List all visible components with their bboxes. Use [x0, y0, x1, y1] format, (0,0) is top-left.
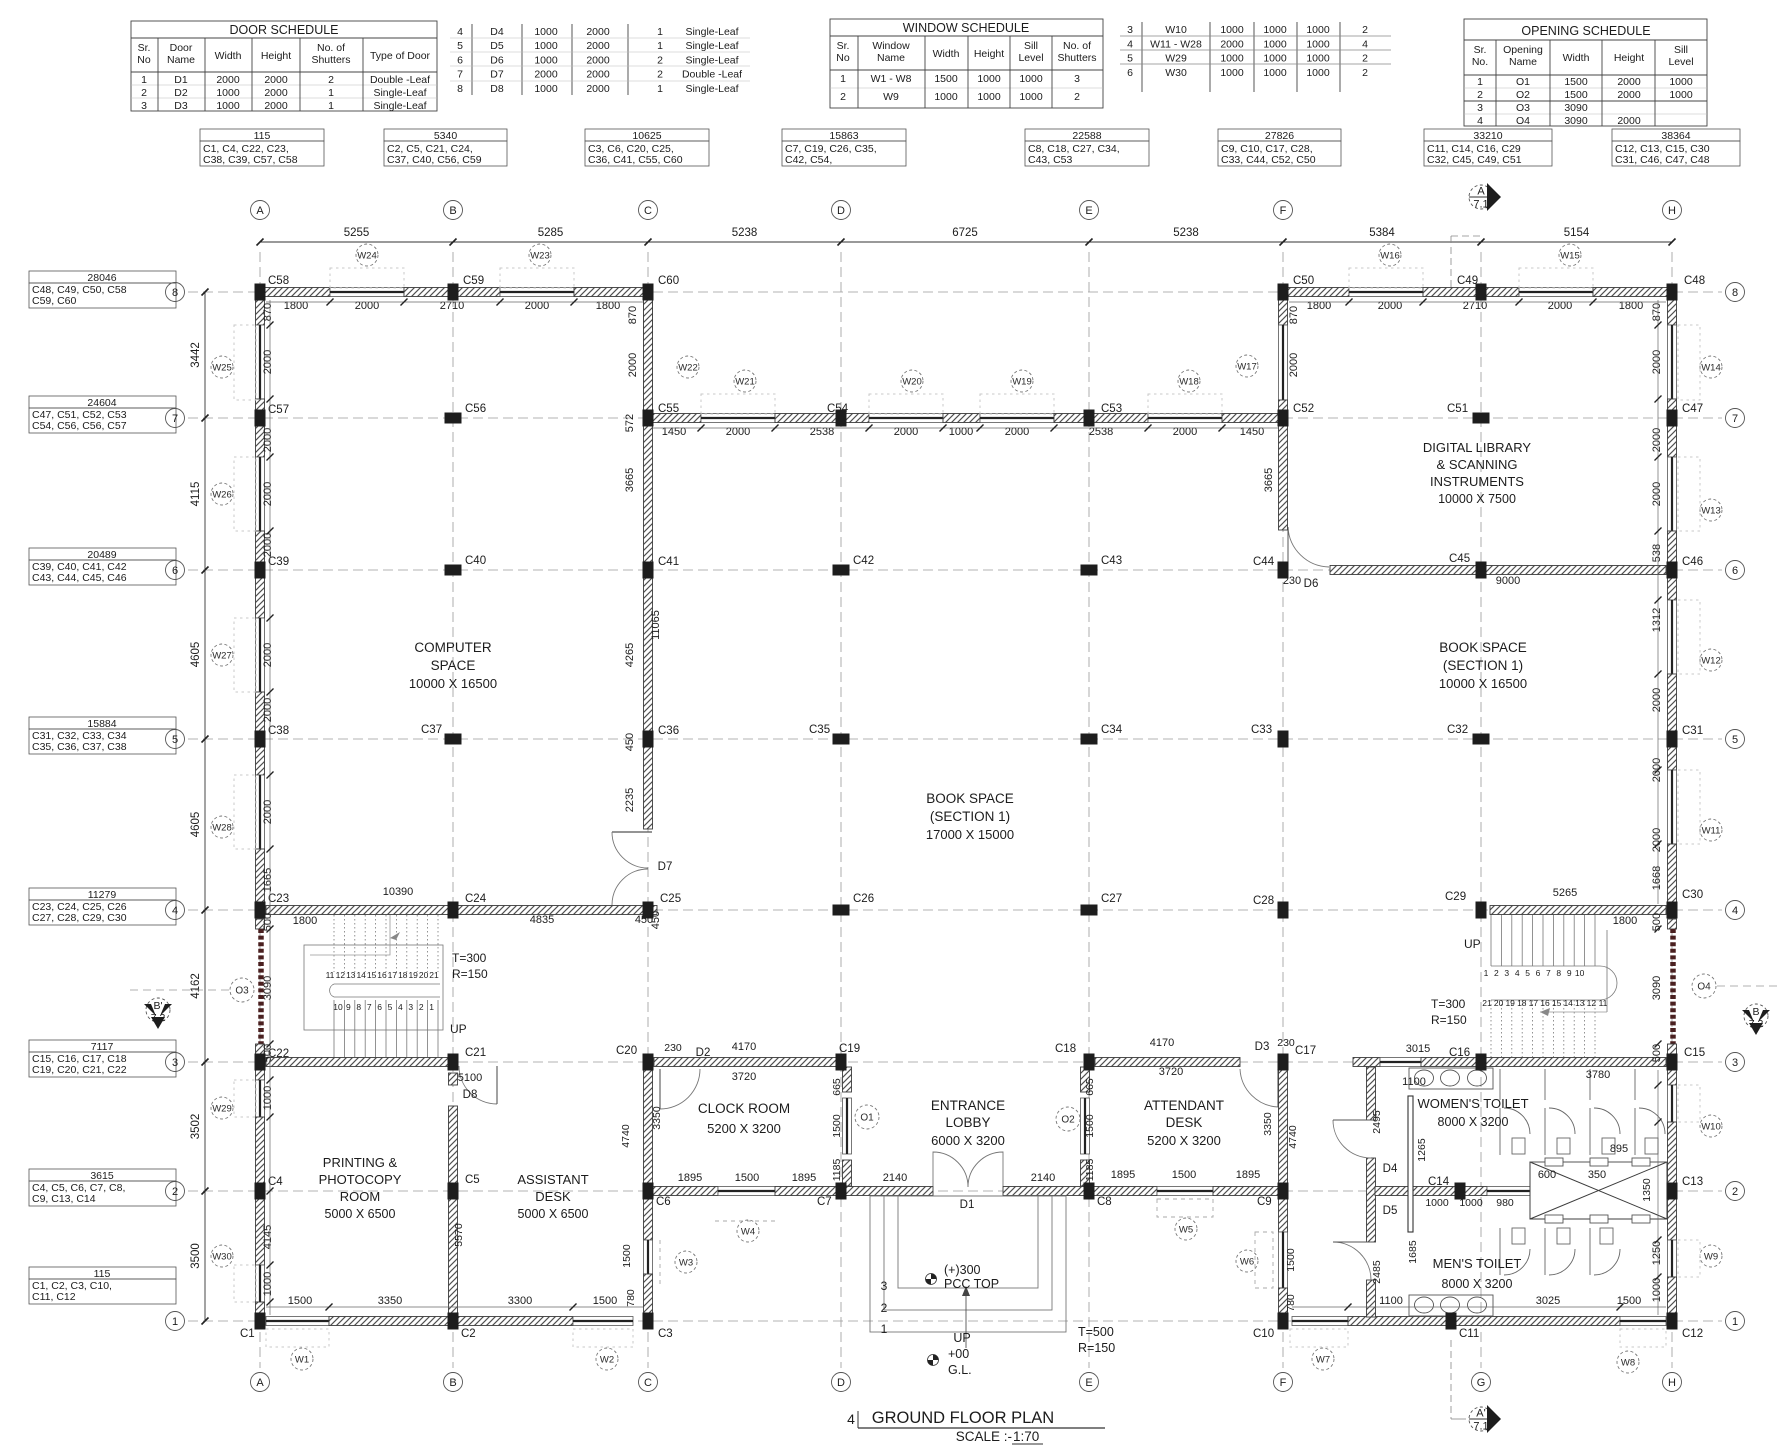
door D4 swing [1333, 1120, 1371, 1158]
wall col C rows3-2 [644, 1069, 653, 1185]
window W23 [500, 288, 574, 297]
svg-text:D5: D5 [1383, 1205, 1398, 1217]
svg-text:5: 5 [457, 40, 463, 52]
svg-text:3350: 3350 [378, 1295, 402, 1307]
svg-text:C46: C46 [1682, 556, 1703, 568]
svg-text:3090: 3090 [262, 976, 274, 1000]
wall row7 segment 1450 [648, 414, 701, 423]
svg-text:1000: 1000 [1669, 76, 1693, 88]
svg-text:W6: W6 [1240, 1257, 1254, 1268]
svg-text:Height: Height [261, 50, 291, 62]
svg-text:8000 X 3200: 8000 X 3200 [1442, 1277, 1513, 1291]
svg-text:4: 4 [847, 1411, 855, 1427]
svg-text:7: 7 [1732, 413, 1738, 425]
wall col H seg [1668, 1122, 1677, 1185]
svg-text:4170: 4170 [1150, 1037, 1174, 1049]
svg-text:W12: W12 [1701, 656, 1721, 667]
svg-text:6: 6 [1732, 565, 1738, 577]
wall col H seg [1668, 424, 1677, 457]
svg-text:870: 870 [627, 306, 639, 324]
svg-text:2: 2 [419, 1002, 424, 1012]
svg-text:1000: 1000 [1306, 38, 1330, 50]
svg-text:W10: W10 [1701, 1122, 1721, 1133]
svg-text:21: 21 [429, 970, 439, 980]
wall col B stub below C21 [449, 1073, 458, 1085]
svg-text:1: 1 [657, 83, 663, 95]
column C50 [1278, 284, 1289, 301]
wall col H seg [1668, 531, 1677, 565]
svg-text:3: 3 [881, 1279, 888, 1293]
svg-text:W29: W29 [212, 1104, 232, 1115]
svg-text:C52: C52 [1293, 403, 1314, 415]
window W19 [980, 414, 1054, 423]
svg-text:C19: C19 [839, 1043, 860, 1055]
svg-text:1000: 1000 [262, 1086, 274, 1110]
wall col C long [644, 298, 653, 829]
svg-text:15: 15 [367, 970, 377, 980]
window W8 [1620, 1317, 1666, 1326]
svg-text:C59: C59 [463, 275, 484, 287]
svg-text:C56: C56 [465, 403, 486, 415]
svg-text:O3: O3 [235, 986, 249, 997]
wall col A seg [256, 1197, 265, 1265]
svg-text:2: 2 [657, 69, 663, 81]
svg-text:A: A [256, 1377, 264, 1389]
column C15 [1667, 1054, 1678, 1071]
svg-text:Shutters: Shutters [311, 54, 350, 66]
svg-text:450: 450 [635, 914, 653, 926]
svg-text:2: 2 [1362, 53, 1368, 65]
women toilet stalls [1500, 1108, 1665, 1155]
svg-text:1500: 1500 [621, 1244, 633, 1268]
wall col A seg [256, 399, 265, 412]
svg-text:1500: 1500 [1084, 1114, 1096, 1138]
svg-text:18: 18 [1517, 998, 1527, 1008]
svg-text:C5: C5 [465, 1174, 480, 1186]
svg-text:1000: 1000 [1425, 1197, 1449, 1209]
svg-text:W5: W5 [1179, 1225, 1193, 1236]
svg-text:3015: 3015 [1406, 1043, 1430, 1055]
svg-text:3: 3 [1477, 102, 1483, 114]
svg-text:1: 1 [1484, 968, 1489, 978]
column C17 [1278, 1054, 1289, 1071]
window W21 [701, 414, 775, 423]
grid number circles left [166, 283, 185, 302]
column C52 [1278, 410, 1289, 427]
svg-text:Single-Leaf: Single-Leaf [373, 87, 426, 99]
wall col A seg below O3 [256, 1044, 265, 1054]
svg-text:2235: 2235 [624, 788, 636, 812]
column C7 [836, 1183, 847, 1200]
toilet left wall seg2 [1367, 1158, 1376, 1242]
svg-text:C55: C55 [658, 403, 679, 415]
svg-text:2000: 2000 [586, 54, 610, 66]
svg-text:3: 3 [1504, 968, 1509, 978]
toilet left wall seg1 [1367, 1067, 1376, 1120]
svg-text:C17: C17 [1295, 1045, 1316, 1057]
opening schedule table [1464, 19, 1707, 126]
window W27 glass [256, 618, 265, 692]
svg-text:C36: C36 [658, 725, 679, 737]
svg-text:D7: D7 [658, 861, 673, 873]
svg-text:20: 20 [1494, 998, 1504, 1008]
svg-text:H: H [1668, 1377, 1676, 1389]
svg-text:PHOTOCOPY: PHOTOCOPY [319, 1172, 402, 1187]
wall col H seg above O4 [1668, 919, 1677, 929]
tick slashes on vertical dim chains [267, 322, 1662, 1306]
svg-text:No. of: No. of [1063, 40, 1091, 52]
window W7 [1292, 1317, 1348, 1326]
svg-text:D1: D1 [960, 1199, 975, 1211]
svg-text:350: 350 [1588, 1169, 1606, 1181]
column C1 [255, 1313, 266, 1330]
svg-text:D2: D2 [174, 87, 188, 99]
svg-text:H: H [1668, 205, 1676, 217]
svg-text:9: 9 [346, 1002, 351, 1012]
svg-text:Double -Leaf: Double -Leaf [370, 74, 430, 86]
svg-text:4605: 4605 [190, 812, 202, 838]
svg-text:1000: 1000 [1263, 67, 1287, 79]
svg-text:8: 8 [1732, 287, 1738, 299]
svg-text:1000: 1000 [216, 87, 240, 99]
svg-text:3720: 3720 [732, 1071, 756, 1083]
column C22 [255, 1054, 266, 1071]
level marker PCC TOP [926, 1274, 937, 1285]
svg-text:Sr.: Sr. [837, 40, 850, 52]
svg-text:C42: C42 [853, 555, 874, 567]
svg-text:3300: 3300 [508, 1295, 532, 1307]
svg-text:500: 500 [1651, 913, 1663, 931]
svg-text:10: 10 [1575, 968, 1585, 978]
svg-text:5238: 5238 [732, 227, 758, 239]
svg-text:4605: 4605 [190, 642, 202, 668]
wall row2 clock bottom [652, 1187, 718, 1196]
svg-text:C53: C53 [1101, 403, 1122, 415]
svg-text:8: 8 [172, 287, 178, 299]
svg-text:W1 - W8: W1 - W8 [871, 73, 912, 85]
svg-text:780: 780 [1285, 1294, 1297, 1312]
svg-text:1100: 1100 [1402, 1076, 1426, 1088]
left dimension line 3442/4115/4605/4605/4162/3502/3500 [204, 292, 206, 1321]
wall row7 segment 2538 [1054, 414, 1148, 423]
svg-text:2485: 2485 [1371, 1260, 1383, 1284]
svg-text:C25: C25 [660, 893, 681, 905]
svg-text:O3: O3 [1516, 102, 1530, 114]
svg-text:2000: 2000 [534, 69, 558, 81]
svg-text:4: 4 [172, 905, 178, 917]
svg-text:C15: C15 [1684, 1047, 1705, 1059]
svg-text:1000: 1000 [977, 91, 1001, 103]
svg-text:W17: W17 [1237, 362, 1257, 373]
svg-text:ASSISTANT: ASSISTANT [517, 1172, 588, 1187]
svg-text:C7: C7 [817, 1196, 832, 1208]
opening O1 window [843, 1098, 852, 1154]
wall row6 [1330, 566, 1666, 575]
svg-text:C9, C13, C14: C9, C13, C14 [32, 1193, 96, 1205]
svg-text:C40: C40 [465, 555, 486, 567]
svg-text:W29: W29 [1165, 53, 1187, 65]
svg-text:4: 4 [1732, 905, 1738, 917]
svg-text:7.1: 7.1 [1473, 1421, 1488, 1433]
svg-text:A: A [1477, 186, 1485, 198]
column C8 [1084, 1183, 1095, 1200]
column C31 [1667, 731, 1678, 748]
svg-text:SPACE: SPACE [431, 658, 476, 673]
svg-text:C51: C51 [1447, 403, 1468, 415]
svg-text:Window: Window [872, 40, 910, 52]
opening O3 collapsible wall (red chain) [258, 929, 264, 1044]
svg-text:1: 1 [881, 1322, 888, 1336]
svg-text:2000: 2000 [1651, 758, 1663, 782]
column C21 [448, 1054, 459, 1071]
dotted leader boxes top wall windows [330, 268, 1593, 414]
svg-text:2000: 2000 [262, 428, 274, 452]
svg-text:2140: 2140 [1031, 1172, 1055, 1184]
column C14 [1455, 1183, 1466, 1200]
svg-text:2000: 2000 [262, 350, 274, 374]
svg-text:Name: Name [167, 54, 195, 66]
wall col A seg [256, 298, 265, 325]
section marker A/7.1 top [1469, 183, 1501, 211]
svg-text:3350: 3350 [651, 1106, 663, 1130]
wall col A seg [256, 692, 265, 734]
window W18 [1148, 414, 1222, 423]
wall col C rows2-1 lower [644, 1274, 653, 1316]
svg-text:1350: 1350 [1641, 1178, 1653, 1202]
svg-text:4740: 4740 [1287, 1125, 1299, 1149]
svg-text:1000: 1000 [977, 73, 1001, 85]
svg-text:1: 1 [429, 1002, 434, 1012]
svg-text:C37: C37 [421, 724, 442, 736]
column C28 [1278, 902, 1289, 919]
svg-text:780: 780 [625, 1289, 637, 1307]
svg-text:Level: Level [1018, 52, 1043, 64]
wall row2 toilets divider [1375, 1187, 1487, 1196]
svg-text:2: 2 [1362, 24, 1368, 36]
window W28 glass [256, 775, 265, 849]
window W4 glass [718, 1187, 775, 1196]
svg-text:2000: 2000 [586, 69, 610, 81]
svg-text:230: 230 [1277, 1037, 1295, 1049]
svg-text:Sill: Sill [1674, 44, 1688, 56]
svg-text:3: 3 [141, 100, 147, 112]
svg-text:1895: 1895 [792, 1172, 816, 1184]
svg-text:4: 4 [1477, 115, 1483, 127]
svg-text:5255: 5255 [344, 227, 370, 239]
window schedule table [830, 19, 1103, 108]
svg-text:3502: 3502 [190, 1114, 202, 1140]
column group label boxes (top) [200, 129, 324, 166]
door D5 swing [1333, 1242, 1371, 1280]
svg-text:F: F [1280, 1377, 1287, 1389]
svg-text:W13: W13 [1701, 506, 1721, 517]
window W29 glass [256, 1080, 265, 1117]
svg-text:D: D [837, 205, 845, 217]
svg-text:C31, C46, C47, C48: C31, C46, C47, C48 [1615, 154, 1710, 166]
svg-text:C33: C33 [1251, 724, 1272, 736]
svg-text:3500: 3500 [190, 1243, 202, 1269]
svg-text:W7: W7 [1316, 1355, 1330, 1366]
svg-text:4: 4 [1127, 38, 1133, 50]
svg-text:DIGITAL LIBRARY: DIGITAL LIBRARY [1423, 440, 1531, 455]
column C47 [1667, 410, 1678, 427]
stair right (between rows 4 and 3) [1428, 915, 1633, 1057]
svg-text:2000: 2000 [586, 26, 610, 38]
svg-text:1500: 1500 [1285, 1248, 1297, 1272]
wall top row8 A-C segment 2 [404, 288, 500, 297]
svg-text:A': A' [1476, 1408, 1485, 1420]
svg-text:1895: 1895 [1236, 1169, 1260, 1181]
dotted leader boxes right wall windows [1678, 325, 1700, 1277]
svg-text:230: 230 [1283, 575, 1301, 587]
svg-text:Single-Leaf: Single-Leaf [685, 26, 738, 38]
svg-text:C43, C44, C45, C46: C43, C44, C45, C46 [32, 572, 127, 584]
wall row2 attendant bottom [1093, 1187, 1157, 1196]
svg-text:1: 1 [1477, 76, 1483, 88]
svg-text:C54, C56, C56, C57: C54, C56, C56, C57 [32, 420, 127, 432]
svg-text:980: 980 [1496, 1197, 1514, 1209]
svg-text:2000: 2000 [216, 74, 240, 86]
svg-text:7.2: 7.2 [151, 1012, 166, 1024]
window W6 glass [1279, 1232, 1288, 1288]
svg-text:2000: 2000 [1220, 38, 1244, 50]
column C54 [836, 410, 847, 427]
svg-text:27826: 27826 [1265, 130, 1294, 142]
svg-text:2: 2 [1494, 968, 1499, 978]
svg-text:PRINTING &: PRINTING & [323, 1155, 398, 1170]
svg-text:1000: 1000 [1220, 53, 1244, 65]
svg-text:870: 870 [262, 303, 274, 321]
svg-text:3090: 3090 [1564, 115, 1588, 127]
svg-text:1185: 1185 [1084, 1159, 1096, 1182]
svg-text:C27: C27 [1101, 893, 1122, 905]
svg-text:Width: Width [933, 48, 960, 60]
svg-text:7.2: 7.2 [1749, 1018, 1764, 1030]
svg-text:+00: +00 [948, 1347, 969, 1361]
svg-text:5200 X 3200: 5200 X 3200 [707, 1121, 781, 1136]
svg-text:19: 19 [1505, 998, 1515, 1008]
svg-text:W15: W15 [1560, 251, 1580, 262]
svg-text:895: 895 [1610, 1143, 1628, 1155]
svg-text:D2: D2 [696, 1047, 711, 1059]
svg-text:8000 X 3200: 8000 X 3200 [1438, 1115, 1509, 1129]
wall col A seg [256, 1117, 265, 1185]
svg-text:UP: UP [450, 1022, 467, 1036]
svg-text:11: 11 [326, 970, 335, 980]
svg-text:D4: D4 [490, 26, 504, 38]
column C56 [445, 413, 462, 424]
opening O2 window [1081, 1098, 1090, 1154]
svg-text:C6: C6 [656, 1196, 671, 1208]
svg-text:3090: 3090 [1564, 102, 1588, 114]
svg-text:1000: 1000 [1263, 53, 1287, 65]
svg-text:W26: W26 [212, 490, 232, 501]
svg-text:2000: 2000 [264, 87, 288, 99]
svg-text:7: 7 [1546, 968, 1551, 978]
svg-text:2000: 2000 [1617, 115, 1641, 127]
wall row2 clock bottom 2 [775, 1187, 837, 1196]
toilet privacy screen wall [1408, 1096, 1413, 1232]
svg-text:T=300: T=300 [1431, 997, 1466, 1011]
column C19 [836, 1054, 847, 1071]
svg-text:C9: C9 [1257, 1196, 1272, 1208]
svg-text:572: 572 [624, 414, 636, 432]
window W10 glass [1668, 1085, 1677, 1122]
svg-text:D1: D1 [174, 74, 188, 86]
svg-text:3: 3 [1127, 24, 1133, 36]
svg-text:C12: C12 [1682, 1328, 1703, 1340]
svg-text:C16: C16 [1449, 1047, 1470, 1059]
svg-text:W24: W24 [357, 251, 377, 262]
column C33 [1278, 731, 1289, 748]
svg-text:C23: C23 [268, 893, 289, 905]
svg-text:R=150: R=150 [452, 967, 488, 981]
svg-text:C8: C8 [1097, 1196, 1112, 1208]
svg-text:Type of Door: Type of Door [370, 50, 431, 62]
window W26 glass [256, 457, 265, 531]
svg-text:C41: C41 [658, 556, 679, 568]
svg-text:4162: 4162 [190, 973, 202, 999]
wall col H seg below O4 [1668, 1044, 1677, 1054]
svg-text:MEN'S TOILET: MEN'S TOILET [1433, 1256, 1522, 1271]
column C37 [445, 734, 462, 745]
column C59 [448, 284, 459, 301]
svg-text:OPENING SCHEDULE: OPENING SCHEDULE [1521, 24, 1650, 38]
wall col H seg [1668, 575, 1677, 600]
door D1 double swing [933, 1152, 968, 1187]
svg-text:D3: D3 [1255, 1041, 1270, 1053]
svg-text:1: 1 [141, 74, 147, 86]
svg-text:SCALE :-: SCALE :- [956, 1429, 1012, 1444]
column C49 [1476, 284, 1487, 301]
section marker A/7.1 bottom [1469, 1405, 1501, 1433]
window W11 glass [1668, 770, 1677, 844]
svg-text:2000: 2000 [1617, 76, 1641, 88]
svg-text:W28: W28 [212, 823, 232, 834]
svg-text:W23: W23 [530, 251, 550, 262]
svg-text:1500: 1500 [1172, 1169, 1196, 1181]
svg-text:5265: 5265 [1553, 887, 1577, 899]
svg-text:10000 X 16500: 10000 X 16500 [409, 676, 497, 691]
svg-text:22588: 22588 [1072, 130, 1101, 142]
dotted leader boxes bottom windows [266, 1329, 1666, 1347]
svg-text:1685: 1685 [1407, 1240, 1419, 1264]
column C51 [1473, 413, 1490, 424]
svg-text:No: No [836, 52, 850, 64]
svg-text:1: 1 [328, 87, 334, 99]
svg-text:W21: W21 [735, 377, 755, 388]
svg-text:1500: 1500 [735, 1172, 759, 1184]
svg-text:R=150: R=150 [1078, 1341, 1115, 1355]
svg-text:19: 19 [408, 970, 418, 980]
window in toilet top wall [1380, 1058, 1421, 1067]
column C57 [255, 410, 266, 427]
svg-text:WOMEN'S TOILET: WOMEN'S TOILET [1417, 1096, 1528, 1111]
svg-text:O1: O1 [860, 1113, 874, 1124]
wall row3 A-B [266, 1058, 448, 1067]
svg-text:6: 6 [377, 1002, 382, 1012]
svg-text:W30: W30 [212, 1252, 232, 1263]
svg-text:7: 7 [367, 1002, 372, 1012]
wall x1085 lower [1081, 1160, 1090, 1186]
svg-text:Height: Height [974, 48, 1004, 60]
svg-text:15: 15 [1552, 998, 1562, 1008]
svg-text:1: 1 [840, 73, 846, 85]
wall col H seg [1668, 298, 1677, 325]
svg-text:C43: C43 [1101, 555, 1122, 567]
svg-text:C44: C44 [1253, 556, 1275, 568]
svg-text:C29: C29 [1445, 891, 1466, 903]
